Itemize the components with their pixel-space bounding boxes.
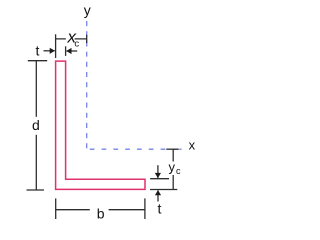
svg-text:y: y [84,2,91,18]
d dimension: bottom tick [27,189,45,191]
y_c top tick (on x axis) [166,148,179,150]
x axis dash stub right of tick [179,148,181,150]
svg-text:c: c [74,39,79,50]
svg-text:t: t [35,43,39,59]
x_c label [66,34,75,45]
svg-text:b: b [97,205,105,221]
t top: right-face extension line [65,46,67,56]
svg-text:y: y [169,160,176,175]
b label [90,202,109,217]
d label [30,117,43,135]
t (bottom): down arrow [157,165,159,178]
svg-text:t: t [158,201,162,217]
b dimension: left tick [55,198,57,219]
svg-text:x: x [189,138,196,153]
b dimension: right tick [144,198,146,219]
angle section L-shape [56,61,145,189]
svg-text:c: c [176,166,181,176]
t (bottom): up arrow [157,190,159,201]
d dimension: top tick [28,60,47,62]
t (bottom): top reference tick at top of horizontal leg [150,178,169,180]
y_c label [167,162,182,176]
svg-text:d: d [32,117,40,133]
t top: right-pointing arrow to left face [44,50,55,52]
x axis (centroidal, dashed) [90,148,181,150]
y_c bottom tick (bottom face) [150,189,177,191]
y_c dimension line [172,149,174,189]
x_c right tick (on y axis) [86,35,88,43]
b dimension: line [56,209,145,211]
t top: left-pointing arrow to right face [67,50,78,52]
x_c left extension/tick (left face of vertical leg) [55,34,57,58]
x_c dimension: line [56,38,87,40]
y axis (centroidal, dashed) [86,21,88,148]
d dimension: vertical line [35,61,37,190]
